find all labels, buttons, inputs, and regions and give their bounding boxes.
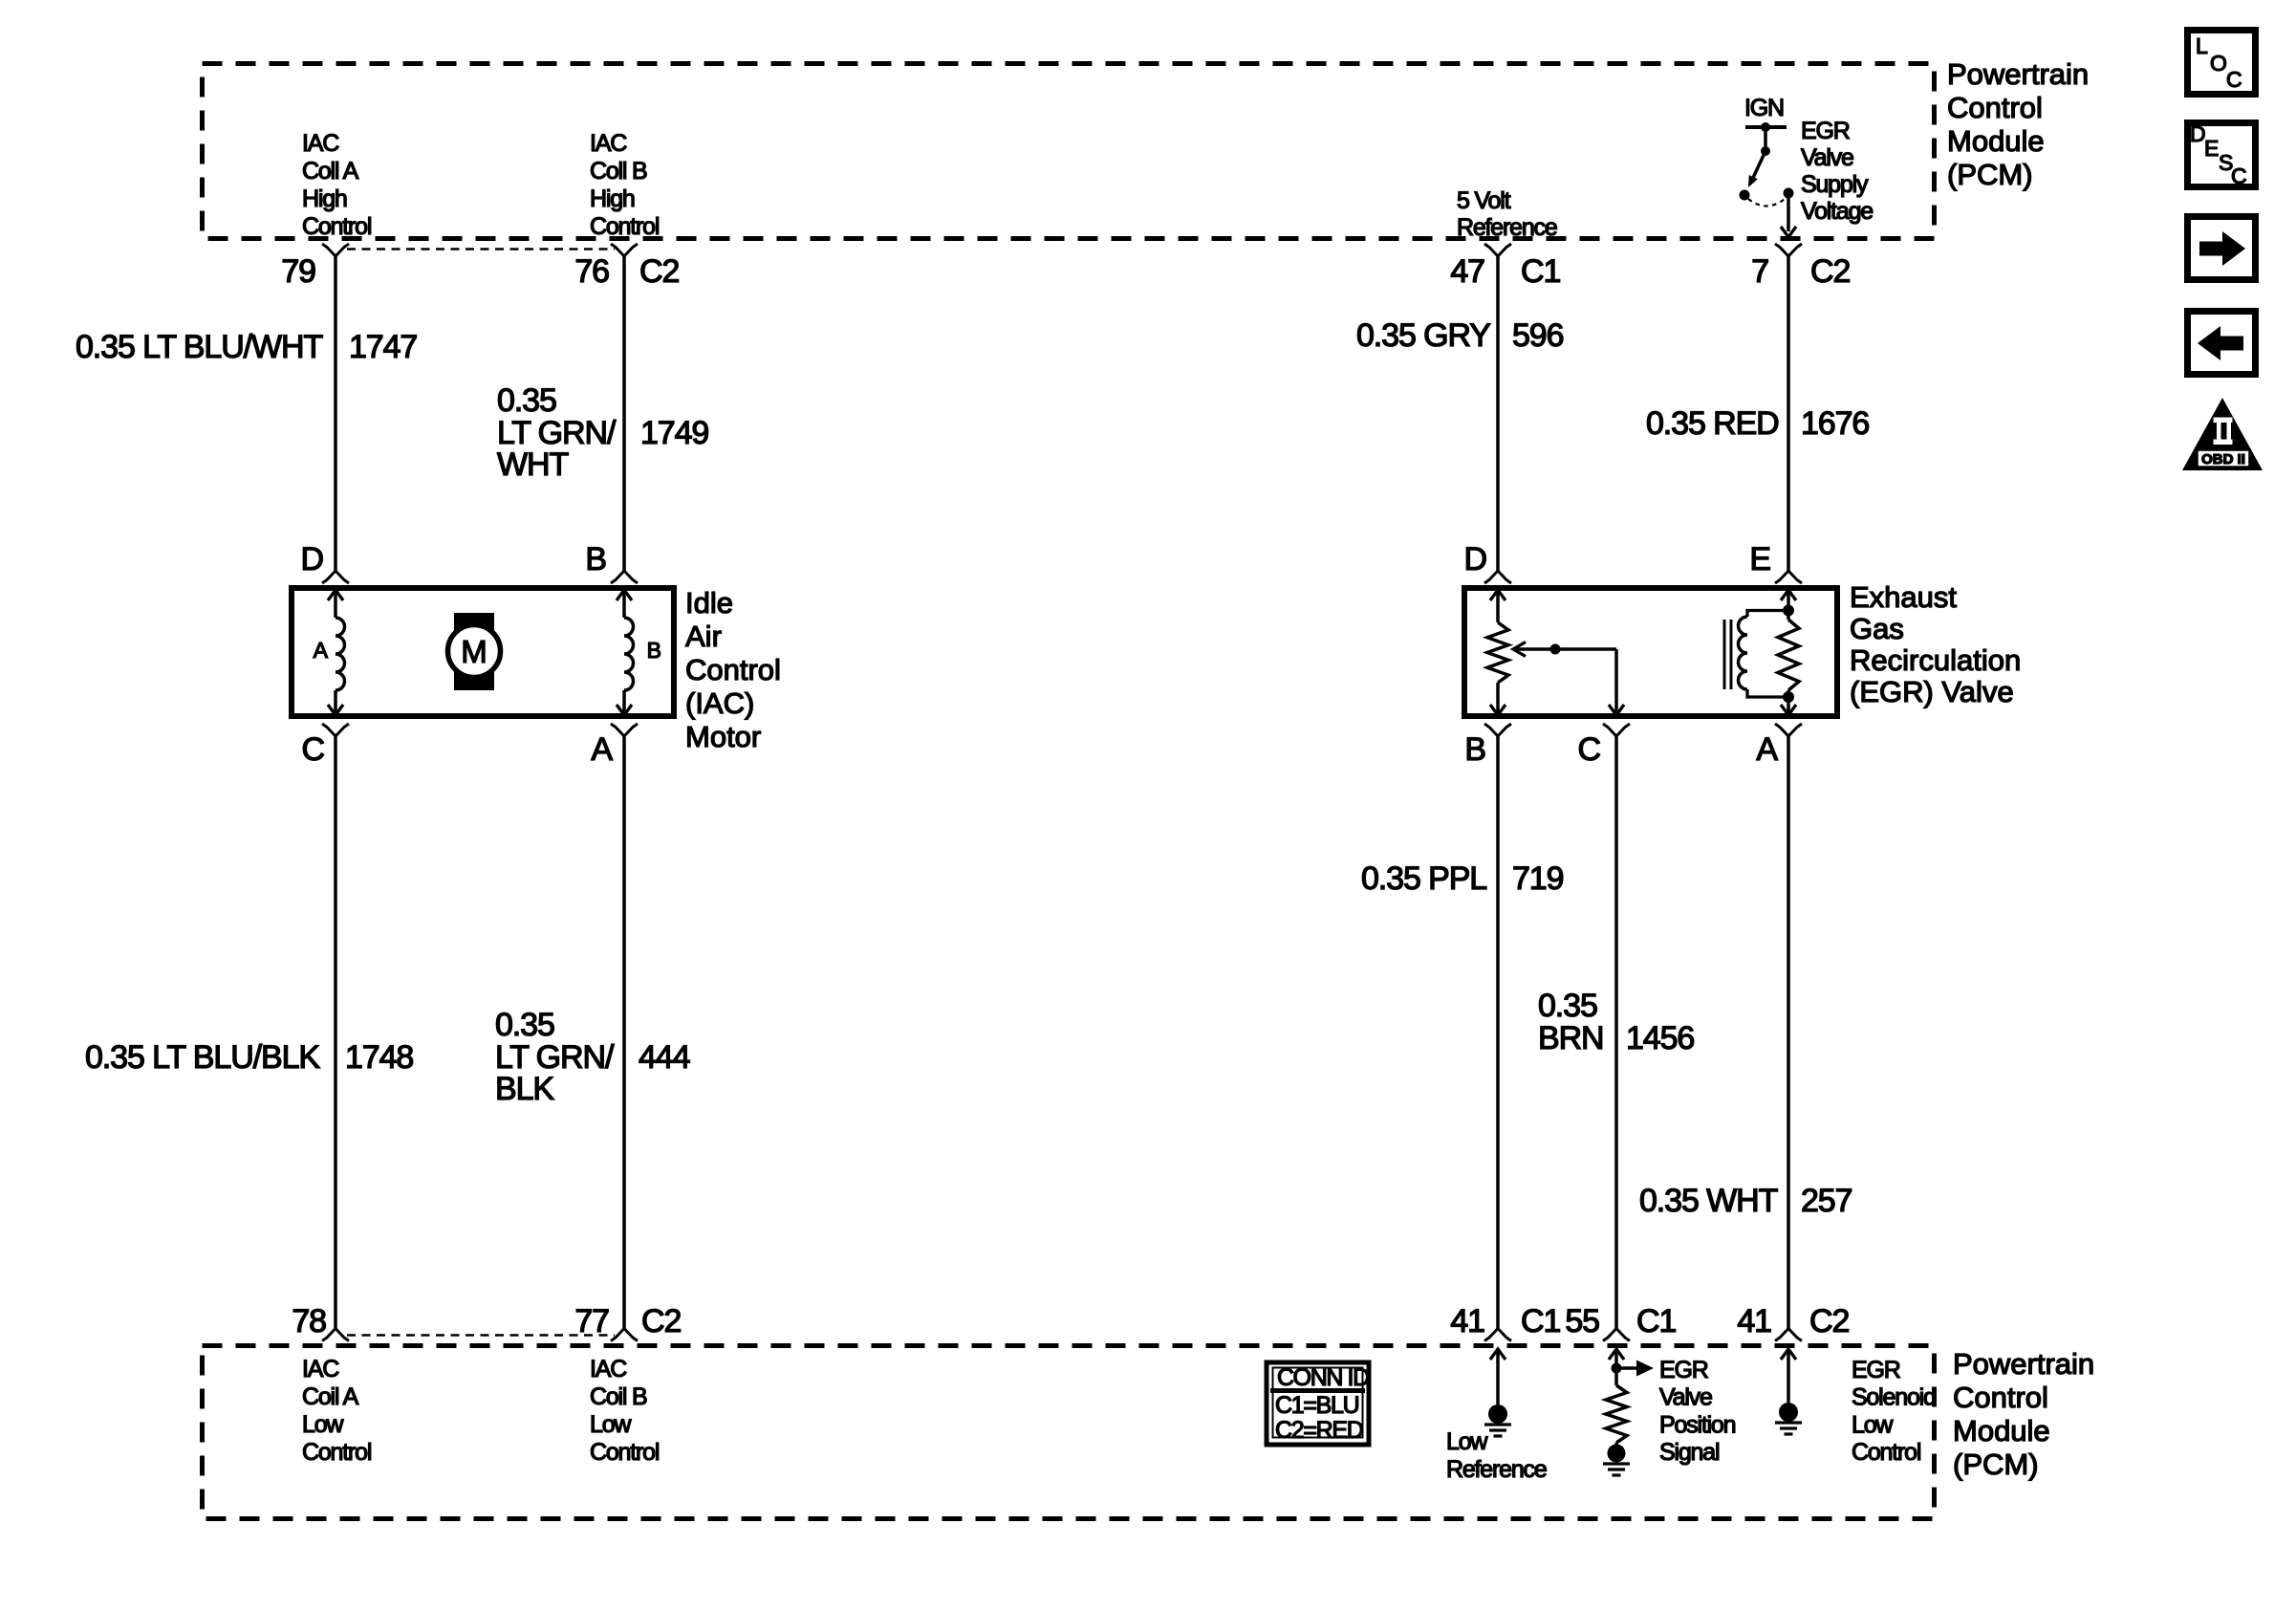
svg-text:0.35 GRY: 0.35 GRY: [1356, 317, 1490, 354]
svg-text:47: 47: [1450, 253, 1484, 290]
svg-text:C2: C2: [1809, 1303, 1849, 1339]
svg-text:Control: Control: [1852, 1439, 1920, 1466]
svg-text:1749: 1749: [640, 415, 708, 451]
svg-text:D: D: [2190, 121, 2205, 146]
svg-text:Exhaust: Exhaust: [1850, 580, 1957, 614]
svg-text:IAC: IAC: [302, 1356, 339, 1382]
svg-text:0.35 RED: 0.35 RED: [1646, 405, 1779, 442]
svg-text:Supply: Supply: [1801, 171, 1869, 198]
svg-text:Low: Low: [590, 1411, 632, 1438]
svg-text:D: D: [301, 541, 323, 577]
svg-text:(IAC): (IAC): [685, 686, 754, 720]
svg-text:Control: Control: [302, 213, 371, 240]
svg-text:B: B: [585, 541, 606, 577]
svg-text:Control: Control: [590, 213, 659, 240]
svg-text:EGR: EGR: [1801, 118, 1850, 144]
svg-text:C: C: [1578, 731, 1601, 768]
svg-text:IAC: IAC: [590, 1356, 627, 1382]
svg-text:EGR: EGR: [1659, 1357, 1708, 1383]
svg-text:719: 719: [1512, 860, 1564, 897]
svg-text:Voltage: Voltage: [1801, 198, 1873, 225]
svg-text:444: 444: [639, 1039, 690, 1076]
svg-text:Low: Low: [302, 1411, 344, 1438]
svg-text:257: 257: [1801, 1183, 1852, 1219]
svg-text:Gas: Gas: [1850, 612, 1904, 645]
svg-text:IAC: IAC: [302, 130, 339, 157]
svg-text:Control: Control: [685, 653, 781, 686]
svg-text:E: E: [1749, 541, 1770, 577]
svg-text:E: E: [2204, 136, 2219, 161]
svg-text:IAC: IAC: [590, 130, 627, 157]
svg-text:C1: C1: [1521, 253, 1560, 290]
svg-text:(PCM): (PCM): [1953, 1448, 2039, 1481]
svg-text:Valve: Valve: [1659, 1384, 1712, 1411]
svg-text:C2: C2: [639, 253, 679, 290]
svg-text:C1: C1: [1636, 1303, 1676, 1339]
svg-text:7: 7: [1751, 253, 1768, 290]
svg-text:1747: 1747: [349, 329, 417, 365]
svg-text:C: C: [2231, 163, 2246, 188]
svg-text:B: B: [1464, 731, 1485, 768]
svg-text:596: 596: [1512, 317, 1564, 354]
svg-text:CONN ID: CONN ID: [1277, 1364, 1369, 1391]
svg-text:Valve: Valve: [1801, 144, 1853, 171]
svg-text:Signal: Signal: [1659, 1439, 1719, 1466]
svg-text:0.35 LT BLU/WHT: 0.35 LT BLU/WHT: [76, 329, 322, 365]
svg-text:Low: Low: [1446, 1428, 1488, 1455]
svg-text:5 Volt: 5 Volt: [1457, 187, 1511, 214]
svg-text:BLK: BLK: [495, 1071, 554, 1107]
svg-text:Control: Control: [590, 1439, 659, 1466]
svg-text:Powertrain: Powertrain: [1947, 57, 2089, 91]
svg-text:Position: Position: [1659, 1411, 1736, 1438]
svg-text:C1=BLU: C1=BLU: [1275, 1392, 1359, 1419]
svg-text:1748: 1748: [345, 1039, 413, 1076]
svg-text:Idle: Idle: [685, 586, 733, 620]
svg-text:0.35: 0.35: [1538, 988, 1597, 1024]
svg-text:High: High: [590, 185, 635, 212]
svg-text:A: A: [1756, 731, 1778, 768]
svg-text:0.35 WHT: 0.35 WHT: [1639, 1183, 1778, 1219]
svg-text:OBD II: OBD II: [2201, 451, 2245, 468]
svg-text:WHT: WHT: [497, 446, 568, 483]
svg-text:0.35 LT BLU/BLK: 0.35 LT BLU/BLK: [85, 1039, 320, 1076]
svg-text:C2: C2: [1810, 253, 1850, 290]
svg-text:1456: 1456: [1626, 1020, 1694, 1056]
svg-text:(EGR) Valve: (EGR) Valve: [1850, 675, 2014, 708]
svg-text:Module: Module: [1947, 124, 2045, 158]
svg-text:Reference: Reference: [1457, 214, 1557, 241]
svg-text:IGN: IGN: [1744, 95, 1784, 121]
svg-text:A: A: [591, 731, 613, 768]
svg-text:Coil B: Coil B: [590, 1383, 647, 1410]
svg-text:Air: Air: [685, 620, 722, 653]
svg-text:0.35: 0.35: [495, 1007, 554, 1043]
svg-text:D: D: [1464, 541, 1486, 577]
svg-text:BRN: BRN: [1538, 1020, 1604, 1056]
svg-text:EGR: EGR: [1852, 1357, 1900, 1383]
svg-text:0.35 PPL: 0.35 PPL: [1361, 860, 1486, 897]
svg-text:C2: C2: [641, 1303, 681, 1339]
svg-text:Coil A: Coil A: [302, 1383, 359, 1410]
svg-text:Control: Control: [1947, 91, 2043, 124]
svg-text:41: 41: [1737, 1303, 1771, 1339]
svg-text:Reference: Reference: [1446, 1456, 1547, 1483]
svg-text:Control: Control: [1953, 1381, 2048, 1414]
svg-text:55: 55: [1565, 1303, 1599, 1339]
svg-text:Control: Control: [302, 1439, 371, 1466]
svg-text:41: 41: [1450, 1303, 1484, 1339]
svg-text:Motor: Motor: [685, 720, 761, 753]
svg-text:Coll B: Coll B: [590, 158, 647, 185]
svg-text:0.35: 0.35: [497, 382, 556, 419]
svg-text:Low: Low: [1852, 1411, 1894, 1438]
svg-text:Module: Module: [1953, 1414, 2050, 1448]
svg-text:78: 78: [292, 1303, 326, 1339]
svg-text:C: C: [2226, 67, 2242, 92]
svg-text:B: B: [647, 638, 661, 663]
svg-text:O: O: [2210, 51, 2226, 76]
svg-text:79: 79: [281, 253, 315, 290]
svg-text:M: M: [461, 634, 487, 669]
svg-text:76: 76: [574, 253, 609, 290]
svg-text:C2=RED: C2=RED: [1275, 1417, 1363, 1444]
svg-text:1676: 1676: [1801, 405, 1869, 442]
svg-text:L: L: [2196, 33, 2208, 58]
svg-text:C: C: [302, 731, 325, 768]
svg-text:77: 77: [574, 1303, 609, 1339]
svg-text:C1: C1: [1521, 1303, 1560, 1339]
svg-text:(PCM): (PCM): [1947, 158, 2033, 191]
svg-text:Recirculation: Recirculation: [1850, 643, 2021, 677]
svg-text:Coll A: Coll A: [302, 158, 359, 185]
svg-text:A: A: [314, 638, 329, 663]
svg-text:Solenoid: Solenoid: [1852, 1384, 1936, 1411]
svg-text:High: High: [302, 185, 347, 212]
svg-text:Powertrain: Powertrain: [1953, 1347, 2094, 1381]
